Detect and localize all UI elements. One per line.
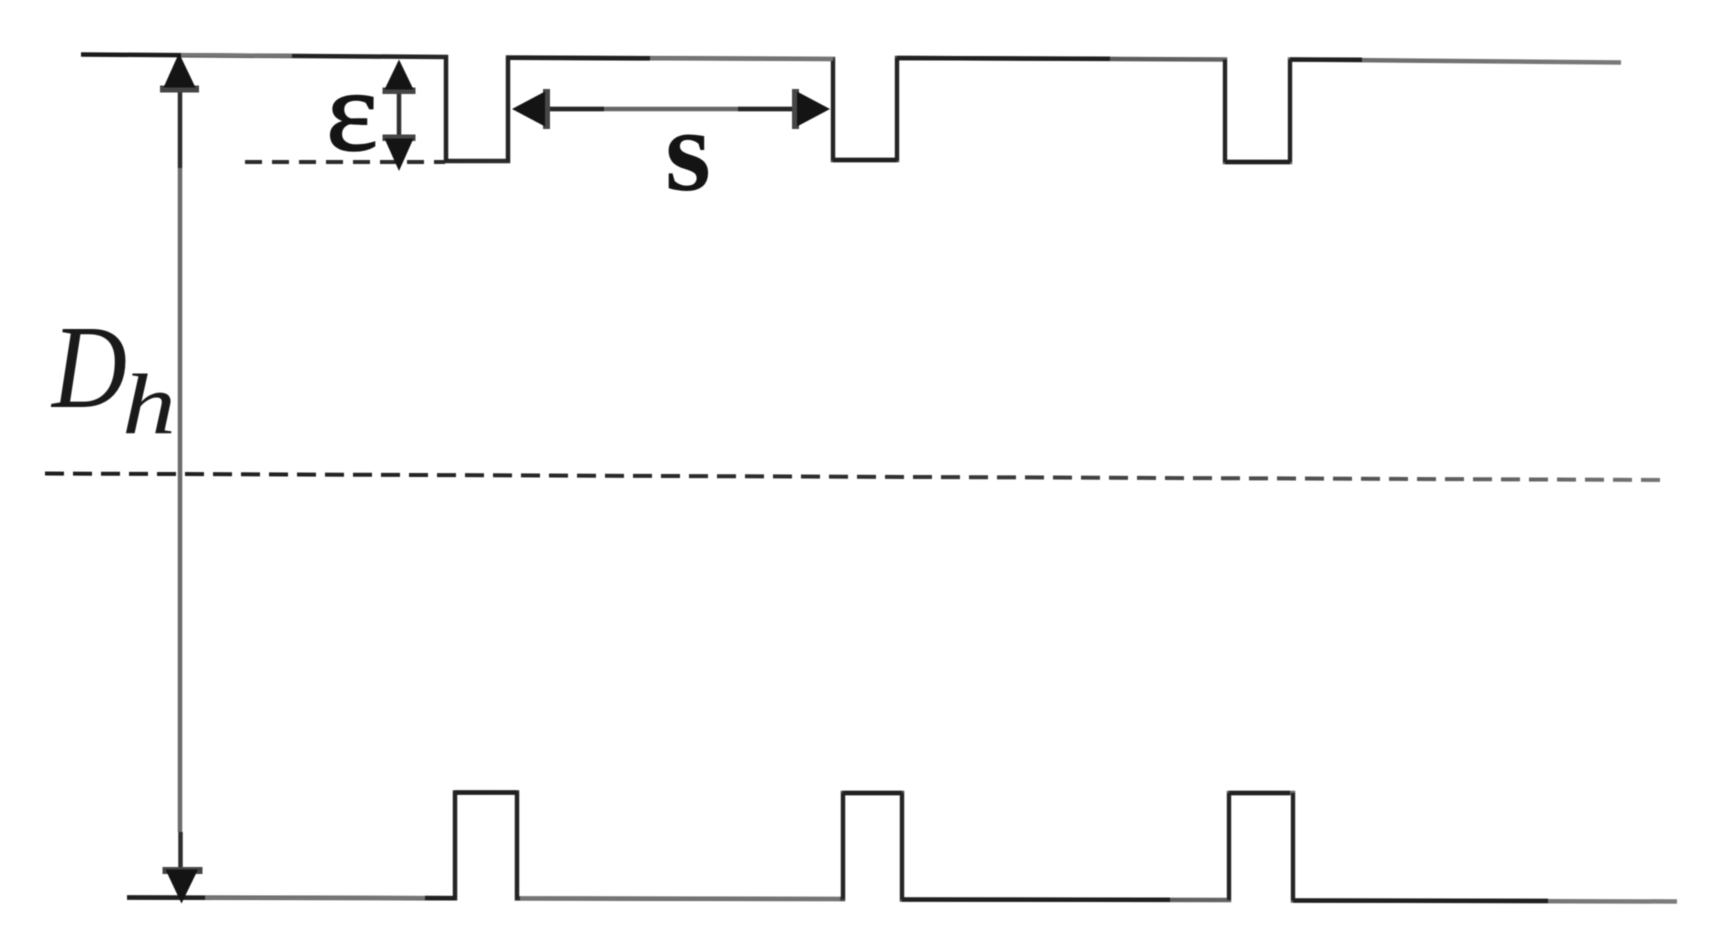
svg-text:ε: ε [326, 48, 378, 176]
svg-text:s: s [665, 85, 711, 216]
svg-text:h: h [122, 356, 176, 452]
svg-text:D: D [50, 301, 127, 433]
